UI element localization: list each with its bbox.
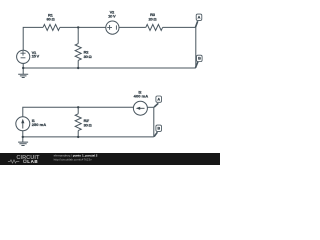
svg-text:400 mA: 400 mA	[134, 94, 149, 99]
wire I1 top lead to bottom-circuit top rail	[23, 107, 134, 117]
label I2 value	[134, 89, 149, 98]
label V2 value	[108, 10, 116, 19]
node B tag	[196, 55, 203, 67]
wire V1 bottom lead	[22, 63, 24, 68]
node B tag (bottom circuit)	[154, 125, 161, 137]
resistor R2'	[75, 114, 81, 131]
resistor R2 bottom lead	[77, 60, 79, 68]
junction node at R2' top	[77, 106, 79, 108]
CircuitLab logo resistor squiggle	[8, 160, 19, 163]
label R2 value	[84, 50, 93, 59]
arrow of current source I1 (up)	[21, 123, 24, 129]
junction node at I1/ground	[22, 136, 24, 138]
voltage source V2	[106, 21, 119, 34]
wire I1 bottom lead	[22, 131, 24, 137]
label I1 value	[32, 118, 47, 127]
wire R1 to V2 through node	[60, 26, 106, 28]
node A tag (bottom circuit)	[154, 96, 161, 107]
resistor R1	[43, 24, 60, 30]
svg-text:250 mA: 250 mA	[32, 122, 47, 127]
ground GND1	[18, 68, 28, 78]
resistor R2	[75, 44, 81, 61]
wire V2 to R3	[119, 26, 146, 28]
svg-text:10 V: 10 V	[108, 13, 116, 18]
resistor R2 top lead	[77, 27, 79, 43]
arrow of current source I2 (left)	[139, 107, 144, 110]
resistor R2' top lead	[77, 107, 79, 114]
node A tag	[196, 14, 202, 27]
wire bottom rail of bottom circuit	[23, 136, 154, 138]
svg-text:30 Ω: 30 Ω	[84, 54, 93, 59]
wire V1 top lead to top rail corner	[23, 27, 43, 50]
wire bottom rail	[23, 67, 196, 69]
wire I2 to node A corner (bottom circuit)	[147, 106, 154, 108]
svg-text:http://circuitlab.com/c47623v: http://circuitlab.com/c47623v	[54, 158, 93, 162]
footer bar	[0, 153, 220, 165]
CircuitLab logo box	[24, 160, 26, 162]
svg-text:LAB: LAB	[27, 159, 38, 164]
voltage source V1	[17, 50, 30, 63]
label R1 value	[47, 12, 56, 21]
ground GND2	[18, 137, 28, 146]
label R3 value	[149, 12, 158, 22]
junction node at V1/ground	[22, 67, 24, 69]
junction node at R1/R2/V2	[77, 26, 79, 28]
junction node at R2 bottom	[77, 67, 79, 69]
wire R3 to node A corner	[163, 26, 196, 28]
label V1 value	[32, 50, 40, 58]
current source I1	[16, 117, 30, 131]
wire right rail A to B	[195, 27, 197, 68]
current source I2	[133, 101, 147, 115]
junction node at R2' bottom	[77, 136, 79, 138]
svg-text:15 V: 15 V	[32, 53, 40, 58]
resistor R3	[146, 24, 163, 30]
label R2' value	[84, 118, 93, 127]
svg-text:20 Ω: 20 Ω	[149, 16, 158, 21]
wire right rail bottom circuit	[153, 107, 155, 137]
resistor R2' bottom lead	[77, 131, 79, 137]
svg-text:60 Ω: 60 Ω	[47, 17, 56, 22]
svg-text:30 Ω: 30 Ω	[84, 122, 93, 127]
